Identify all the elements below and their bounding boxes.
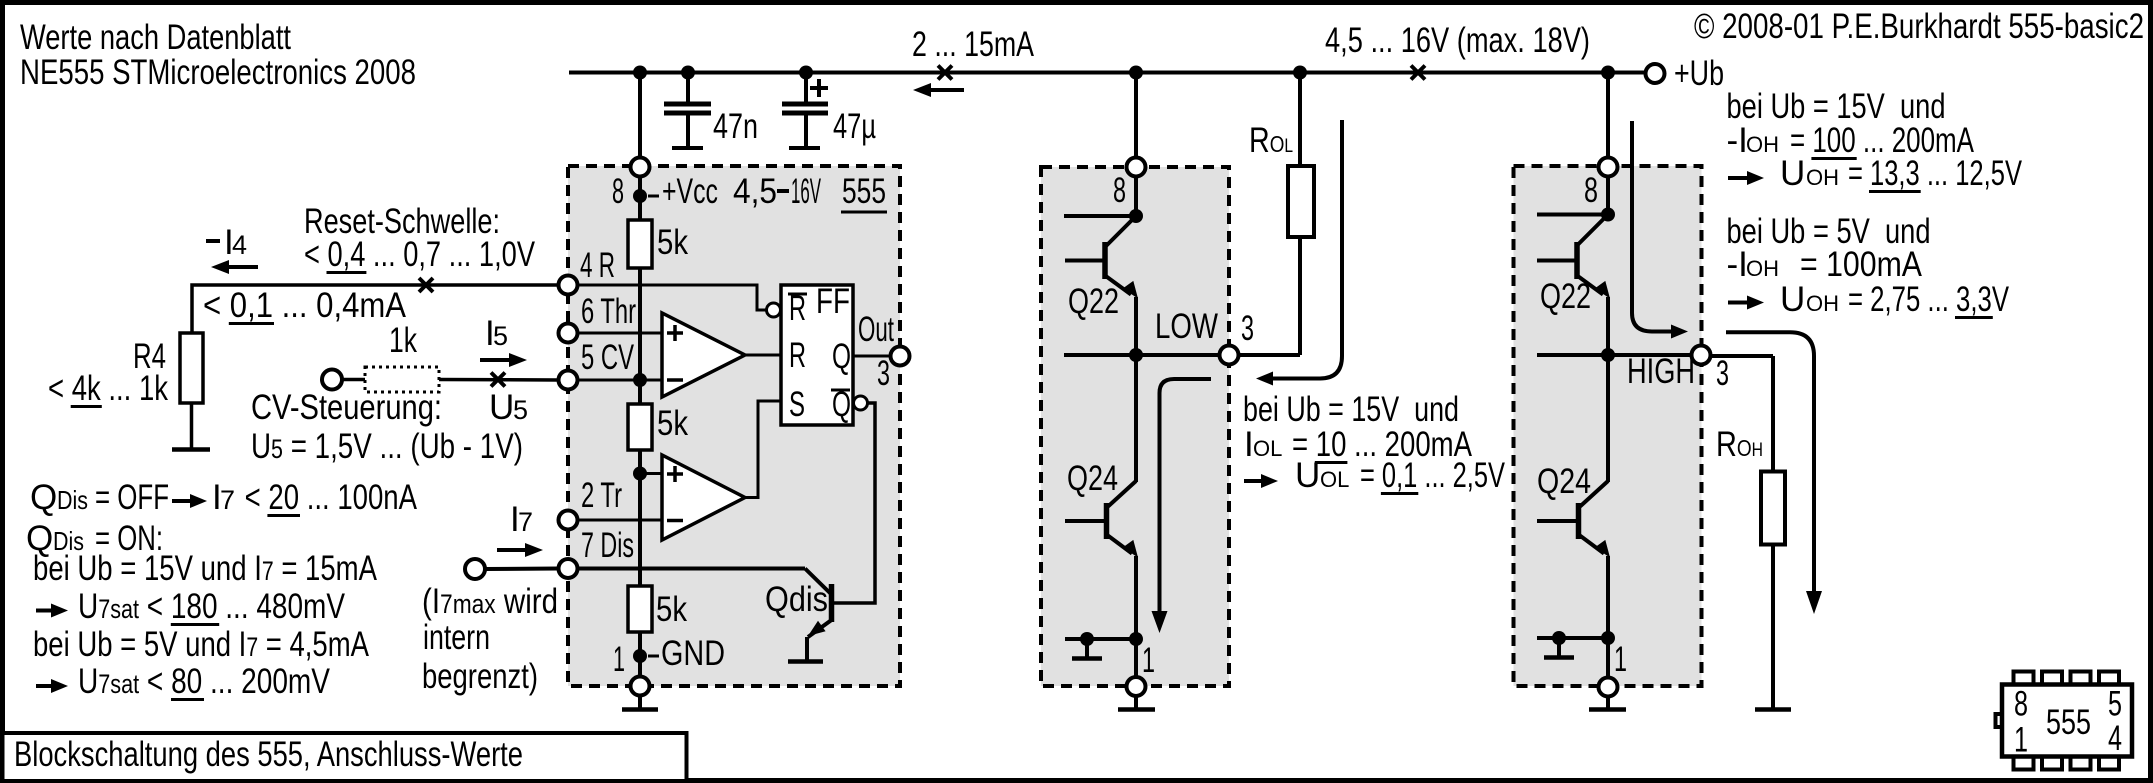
svg-text:< 0,4 ... 0,7 ... 1,0V: < 0,4 ... 0,7 ... 1,0V — [304, 235, 536, 274]
svg-text:U5 = 1,5V ... (Ub - 1V): U5 = 1,5V ... (Ub - 1V) — [251, 427, 523, 466]
svg-text:4,5: 4,5 — [733, 172, 777, 211]
svg-text:Dis: Dis — [57, 485, 88, 515]
svg-text:GND: GND — [661, 634, 725, 673]
svg-text:U: U — [1780, 154, 1805, 193]
svg-text:8: 8 — [1584, 171, 1598, 210]
svg-text:Out: Out — [858, 310, 894, 349]
svg-text:OH: OH — [1746, 256, 1779, 281]
svg-text:5 CV: 5 CV — [581, 338, 634, 377]
svg-text:5k: 5k — [657, 223, 688, 262]
svg-text:1: 1 — [1614, 640, 1627, 679]
svg-text:OH: OH — [1806, 165, 1839, 190]
svg-text:= 100mA: = 100mA — [1800, 245, 1923, 284]
svg-text:CV-Steuerung:: CV-Steuerung: — [251, 388, 442, 427]
svg-text:1: 1 — [2014, 721, 2028, 760]
svg-text:< 0,1 ... 0,4mA: < 0,1 ... 0,4mA — [203, 286, 407, 325]
svg-text:OH: OH — [1806, 291, 1839, 316]
svg-text:-I: -I — [1727, 121, 1748, 160]
svg-text:5: 5 — [513, 395, 528, 425]
svg-text:3: 3 — [1241, 309, 1254, 348]
svg-text:OH: OH — [1746, 132, 1779, 157]
svg-text:Q22: Q22 — [1068, 282, 1119, 321]
svg-text:bei Ub = 15V und I7 = 15mA: bei Ub = 15V und I7 = 15mA — [33, 549, 378, 588]
svg-text:Q: Q — [30, 478, 57, 517]
svg-text:5: 5 — [493, 321, 508, 351]
svg-text:begrenzt): begrenzt) — [422, 657, 538, 696]
svg-text:8: 8 — [612, 172, 624, 211]
svg-text:5k: 5k — [656, 590, 687, 629]
svg-text:8: 8 — [1113, 171, 1126, 210]
svg-text:6 Thr: 6 Thr — [581, 292, 636, 331]
svg-text:S: S — [789, 385, 805, 424]
svg-text:bei Ub = 5V und I7 = 4,5mA: bei Ub = 5V und I7 = 4,5mA — [33, 625, 370, 664]
svg-text:FF: FF — [816, 282, 850, 321]
svg-text:555: 555 — [2046, 703, 2091, 742]
svg-text:1: 1 — [1142, 641, 1155, 680]
svg-text:-I: -I — [1727, 245, 1748, 284]
svg-text:U: U — [489, 388, 514, 427]
svg-text:3: 3 — [1716, 354, 1729, 393]
svg-text:= 13,3 ... 12,5V: = 13,3 ... 12,5V — [1848, 154, 2022, 193]
svg-text:= 0,1 ... 2,5V: = 0,1 ... 2,5V — [1360, 456, 1505, 495]
svg-text:+Ub: +Ub — [1674, 54, 1724, 93]
svg-text:R: R — [789, 336, 806, 375]
svg-text:555: 555 — [842, 172, 886, 211]
svg-text:4: 4 — [2108, 719, 2122, 758]
svg-text:= OFF: = OFF — [95, 478, 169, 517]
svg-text:2 Tr: 2 Tr — [581, 476, 622, 515]
svg-text:4,5 ... 16V (max. 18V): 4,5 ... 16V (max. 18V) — [1325, 21, 1590, 60]
svg-text:4: 4 — [232, 230, 247, 260]
svg-text:16V: 16V — [791, 172, 821, 211]
svg-text:bei Ub = 15V und: bei Ub = 15V und — [1243, 390, 1459, 429]
svg-text:Werte nach Datenblatt: Werte nach Datenblatt — [20, 18, 291, 57]
svg-text:< 4k ... 1k: < 4k ... 1k — [48, 369, 168, 408]
svg-text:Qdis: Qdis — [765, 580, 828, 619]
svg-text:Q: Q — [832, 337, 851, 376]
svg-text:2 ... 15mA: 2 ... 15mA — [912, 25, 1034, 64]
svg-text:1: 1 — [613, 640, 625, 679]
svg-text:5: 5 — [2108, 685, 2122, 724]
svg-text:5k: 5k — [657, 404, 688, 443]
svg-text:OL: OL — [1253, 436, 1282, 461]
svg-text:Blockschaltung des 555, Anschl: Blockschaltung des 555, Anschluss-Werte — [14, 735, 523, 774]
svg-text:3: 3 — [877, 354, 890, 393]
svg-text:= 2,75 ... 3,3V: = 2,75 ... 3,3V — [1848, 280, 2009, 319]
svg-text:1k: 1k — [389, 321, 417, 360]
svg-text:Q22: Q22 — [1540, 277, 1591, 316]
svg-text:intern: intern — [423, 618, 490, 657]
svg-text:7 Dis: 7 Dis — [581, 526, 634, 565]
svg-text:U: U — [1780, 280, 1805, 319]
svg-text:OL: OL — [1320, 467, 1349, 492]
svg-text:8: 8 — [2014, 685, 2028, 724]
svg-text:47n: 47n — [713, 107, 758, 146]
svg-text:7: 7 — [220, 485, 235, 515]
svg-text:NE555 STMicroelectronics 2008: NE555 STMicroelectronics 2008 — [20, 53, 416, 92]
svg-text:47µ: 47µ — [833, 107, 876, 146]
svg-text:4 R: 4 R — [580, 246, 615, 285]
svg-text:Q24: Q24 — [1537, 462, 1591, 501]
svg-text:HIGH: HIGH — [1627, 352, 1695, 391]
svg-text:© 2008-01 P.E.Burkhardt 555-ba: © 2008-01 P.E.Burkhardt 555-basic2 — [1694, 7, 2144, 46]
svg-text:< 20 ... 100nA: < 20 ... 100nA — [237, 478, 418, 517]
svg-text:LOW: LOW — [1155, 307, 1218, 346]
svg-text:Q24: Q24 — [1067, 459, 1118, 498]
svg-text:7: 7 — [518, 507, 533, 537]
svg-text:+Vcc: +Vcc — [662, 172, 718, 211]
